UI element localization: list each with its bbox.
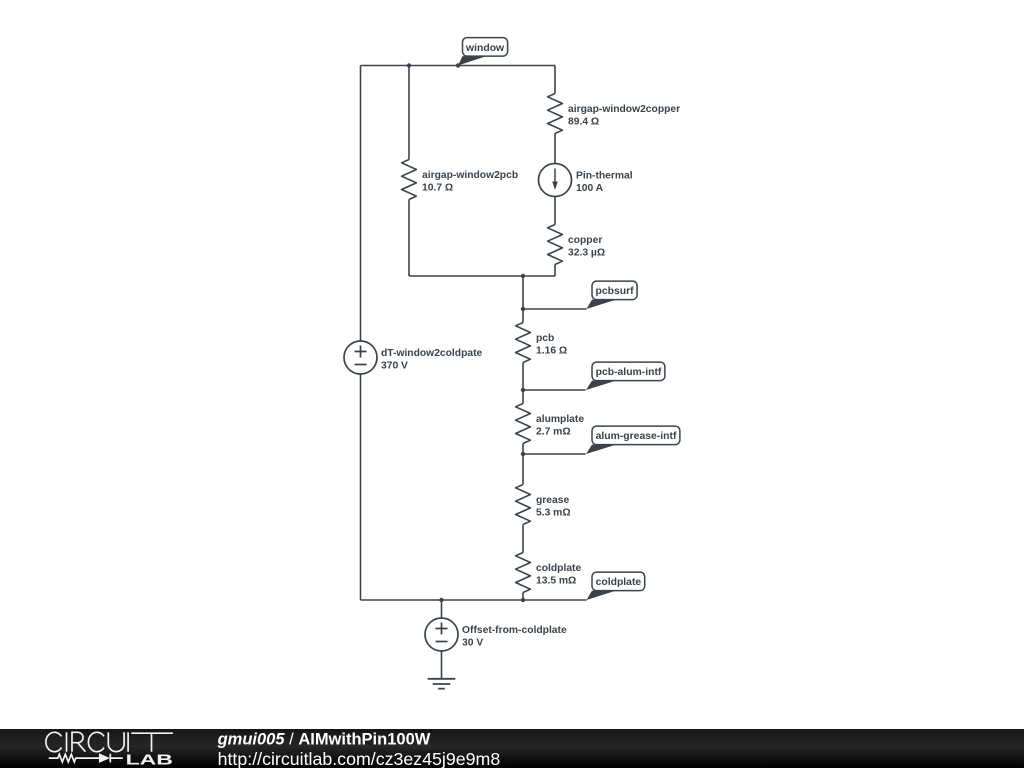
- flag pointer pcbsurf: [587, 300, 617, 309]
- svg-text:window: window: [465, 43, 505, 54]
- wire middle branch top: [408, 66, 410, 160]
- voltage source dT plus sign: [355, 346, 367, 358]
- wire left lower: [360, 374, 362, 600]
- svg-text:100 A: 100 A: [576, 183, 604, 194]
- current source arrow: [554, 169, 556, 184]
- svg-text:pcbsurf: pcbsurf: [596, 286, 635, 297]
- resistor airgap-window2pcb: [402, 160, 417, 200]
- voltage source Offset plus sign: [436, 623, 448, 635]
- junction node vsource bottom: [439, 598, 443, 602]
- logo resistor-diode symbol: [49, 754, 123, 763]
- wire flag pcb-alum-intf: [523, 389, 586, 391]
- wire middle branch bottom: [408, 200, 410, 277]
- svg-text:1.16 Ω: 1.16 Ω: [536, 346, 567, 357]
- logo letter C: [88, 732, 104, 751]
- svg-text:13.5 mΩ: 13.5 mΩ: [536, 576, 576, 587]
- wire voltage source Offset top lead: [441, 600, 443, 618]
- junction node alum-grease-intf: [521, 452, 525, 456]
- flag pointer alum-grease-intf: [586, 445, 616, 454]
- voltage source dT minus sign: [355, 364, 367, 366]
- wire chain top: [522, 276, 524, 323]
- logo letter T: [131, 733, 173, 752]
- svg-text:copper: copper: [568, 235, 602, 246]
- flag pointer window: [458, 56, 487, 65]
- svg-text:370 V: 370 V: [381, 361, 408, 372]
- resistor airgap-window2copper: [548, 94, 563, 134]
- wire upper loop bottom: [409, 275, 555, 277]
- wire flag pcbsurf: [523, 308, 587, 310]
- wire: [522, 444, 524, 485]
- node flag pcb-alum-intf box: [592, 362, 665, 381]
- flag pointer coldplate: [587, 591, 617, 600]
- svg-text:pcb: pcb: [536, 333, 554, 344]
- voltage source Offset-from-coldplate circle: [425, 618, 458, 651]
- svg-text:30 V: 30 V: [462, 638, 483, 649]
- wire bottom: [361, 599, 587, 601]
- svg-text:dT-window2coldpate: dT-window2coldpate: [381, 348, 483, 359]
- svg-text:grease: grease: [536, 495, 569, 506]
- resistor grease: [516, 485, 531, 525]
- node flag coldplate box: [592, 572, 645, 591]
- resistor alumplate: [516, 404, 531, 444]
- junction node pcbsurf: [521, 307, 525, 311]
- svg-text:LAB: LAB: [126, 753, 173, 768]
- svg-text:2.7 mΩ: 2.7 mΩ: [536, 427, 571, 438]
- wire: [522, 593, 524, 601]
- wire right branch top: [554, 66, 556, 94]
- svg-text:coldplate: coldplate: [596, 577, 642, 588]
- svg-text:airgap-window2copper: airgap-window2copper: [568, 104, 680, 115]
- svg-text:http://circuitlab.com/cz3ez45j: http://circuitlab.com/cz3ez45j9e9m8: [218, 749, 501, 768]
- svg-text:pcb-alum-intf: pcb-alum-intf: [596, 367, 662, 378]
- resistor copper: [548, 225, 563, 265]
- current source Pin-thermal circle: [539, 164, 572, 197]
- node flag pcbsurf box: [592, 281, 637, 300]
- svg-text:coldplate: coldplate: [536, 563, 581, 574]
- voltage source Offset minus sign: [436, 641, 448, 643]
- wire: [522, 363, 524, 404]
- svg-text:5.3 mΩ: 5.3 mΩ: [536, 508, 571, 519]
- wire: [554, 134, 556, 164]
- svg-text:gmui005 / AIMwithPin100W: gmui005 / AIMwithPin100W: [217, 731, 431, 749]
- current source arrowhead: [552, 182, 558, 191]
- svg-text:32.3 µΩ: 32.3 µΩ: [568, 248, 605, 259]
- logo letter I: [127, 732, 129, 751]
- wire: [554, 197, 556, 225]
- logo letter R: [72, 732, 85, 751]
- junction node window flag: [456, 63, 460, 67]
- junction node chain top: [521, 274, 525, 278]
- logo letter U: [108, 732, 124, 751]
- ground: [428, 679, 456, 689]
- resistor pcb: [516, 323, 531, 363]
- junction node pcb-alum-intf: [521, 388, 525, 392]
- svg-text:89.4 Ω: 89.4 Ω: [568, 117, 599, 128]
- node flag alum-grease-intf box: [592, 426, 680, 445]
- svg-text:alumplate: alumplate: [536, 414, 584, 425]
- logo letter I: [66, 732, 68, 751]
- svg-text:10.7 Ω: 10.7 Ω: [422, 183, 453, 194]
- junction node on top wire (mid branch): [407, 63, 411, 67]
- svg-text:airgap-window2pcb: airgap-window2pcb: [422, 170, 518, 181]
- logo letter C: [46, 732, 62, 751]
- wire flag alum-grease-intf: [523, 453, 586, 455]
- wire left upper: [360, 66, 362, 342]
- svg-text:Pin-thermal: Pin-thermal: [576, 171, 633, 182]
- svg-text:Offset-from-coldplate: Offset-from-coldplate: [462, 625, 567, 636]
- flag pointer pcb-alum-intf: [586, 381, 616, 390]
- wire: [554, 265, 556, 277]
- svg-text:alum-grease-intf: alum-grease-intf: [596, 431, 677, 442]
- resistor coldplate: [516, 553, 531, 593]
- wire: [522, 525, 524, 553]
- node flag window box: [463, 38, 508, 57]
- wire top: [361, 65, 556, 67]
- junction node chain bottom: [521, 598, 525, 602]
- voltage source dT-window2coldpate circle: [344, 341, 377, 374]
- wire ground lead: [441, 651, 443, 679]
- logo diode triangle: [99, 753, 110, 763]
